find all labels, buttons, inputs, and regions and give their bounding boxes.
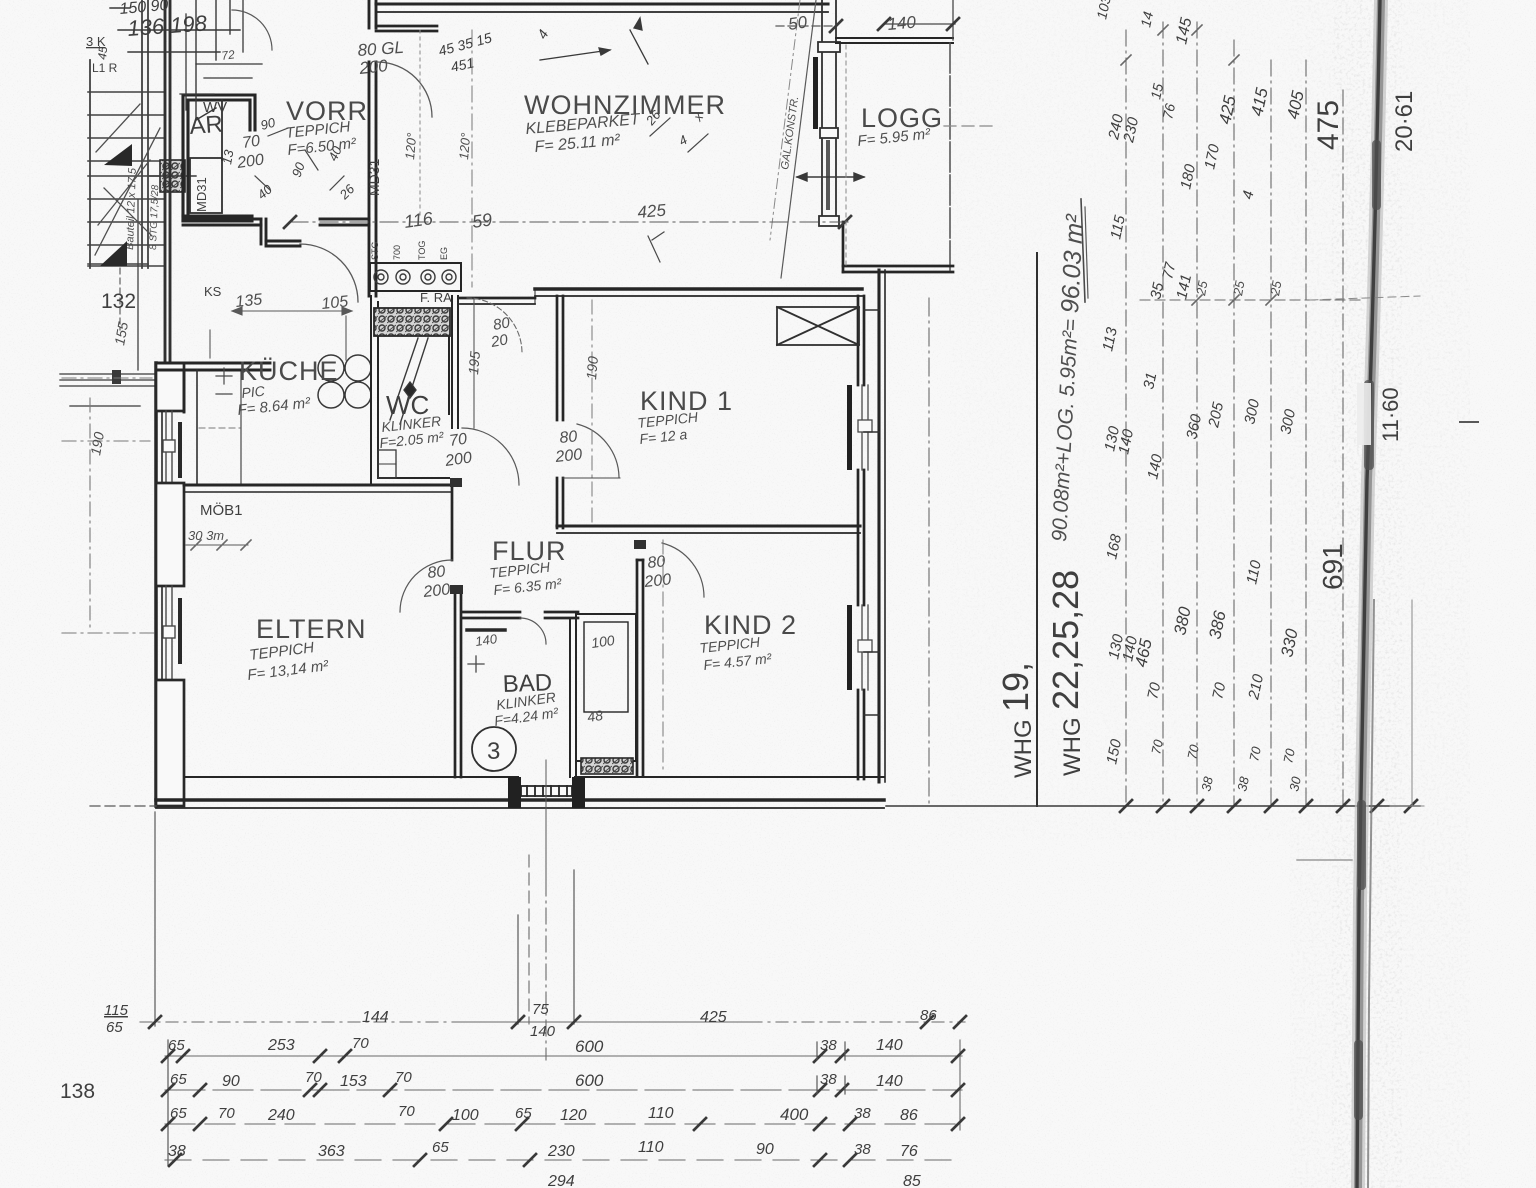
svg-text:138: 138: [60, 1080, 95, 1103]
top-left tick cluster: [110, 0, 240, 120]
svg-text:70: 70: [352, 1035, 369, 1052]
WC room walls: [371, 296, 458, 485]
wall below wohnzimmer (north wall of kind1): [460, 289, 862, 304]
svg-text:38: 38: [820, 1037, 837, 1054]
entrance door leaf at bottom: [521, 786, 572, 796]
svg-text:140: 140: [876, 1073, 903, 1090]
right side vertical dim line: [928, 298, 930, 806]
svg-text:253: 253: [267, 1037, 295, 1054]
svg-text:76: 76: [900, 1143, 918, 1160]
scan fold band: [1358, 0, 1381, 1188]
svg-text:F. RA: F. RA: [420, 290, 452, 305]
svg-text:400: 400: [780, 1105, 809, 1124]
svg-text:STG: STG: [370, 241, 380, 260]
svg-text:38: 38: [854, 1141, 871, 1158]
svg-text:200: 200: [422, 581, 451, 601]
top chain numbers: [1093, 0, 1195, 121]
WOHN/LOGG divider wall with window: [818, 0, 840, 226]
WOHNZIMMER top wall: [376, 4, 828, 12]
kueche counter edge: [240, 372, 242, 484]
svg-text:200: 200: [643, 571, 672, 591]
KUECHE top wall: [156, 363, 270, 412]
AR inner closet divider: [190, 100, 222, 213]
bad door swing: [520, 618, 546, 644]
east window frame lines kind2: [858, 605, 872, 690]
svg-text:38: 38: [820, 1071, 837, 1088]
svg-text:140: 140: [530, 1023, 556, 1040]
stove tiny rotated labels: [370, 241, 449, 260]
svg-text:86: 86: [900, 1107, 918, 1124]
staircase treads: [88, 92, 165, 266]
svg-text:132: 132: [101, 290, 136, 313]
band light gap: [1357, 383, 1371, 445]
kind1 door swing (into kind1): [577, 424, 619, 477]
svg-text:115: 115: [104, 1002, 129, 1019]
dim line right of wc: [473, 298, 475, 428]
entrance top wall going right: [376, 26, 437, 31]
svg-text:65: 65: [432, 1139, 449, 1156]
WHG separator vertical line: [1036, 253, 1038, 806]
west wall pier block middle: [156, 483, 184, 586]
vertical chain line C: [1196, 22, 1198, 806]
svg-text:120°: 120°: [402, 132, 419, 160]
svg-text:70: 70: [448, 431, 468, 450]
staircase diagonal hatching: [95, 104, 160, 255]
west wall pier block top (kueche): [156, 363, 184, 411]
wc door swing into flur: [462, 428, 519, 485]
small 70/11 pairs: [1148, 738, 1304, 793]
svg-text:WHG: WHG: [1010, 719, 1037, 778]
landing rail post: [112, 370, 121, 384]
top-left door arc: [232, 10, 272, 50]
svg-text:MD31: MD31: [194, 177, 209, 212]
svg-text:30 3m: 30 3m: [188, 528, 224, 543]
vorr-kueche door swing: [300, 244, 358, 302]
svg-text:110: 110: [638, 1139, 664, 1156]
eltern door swing: [400, 560, 452, 612]
wohnzimmer left guide dashed: [419, 30, 421, 218]
BAD top wall: [463, 612, 578, 618]
VORR right wall / entrance wall: [369, 0, 376, 296]
stair wall (right of stairs): [165, 0, 170, 363]
chain mid ticks row (y300): [1140, 299, 1360, 301]
svg-text:70: 70: [305, 1069, 322, 1086]
svg-text:65: 65: [168, 1037, 185, 1054]
logg arrow horizontal: [797, 173, 864, 181]
vorr to flur door arc: [467, 298, 522, 353]
faint dash right of logg: [944, 125, 992, 127]
east window glazing bar kind2: [847, 605, 852, 690]
east window frame lines kind1: [858, 385, 872, 470]
top right corner dim 140: [884, 0, 955, 40]
svg-text:700: 700: [392, 245, 402, 260]
kueche crosshair: [216, 368, 232, 394]
kueche inner left line: [196, 370, 198, 485]
dim row 2 (y=1090): [165, 1089, 962, 1091]
svg-text:200: 200: [554, 446, 583, 466]
staircase rails: [90, 0, 148, 370]
kueche double circles (sink): [318, 355, 371, 408]
svg-text:65: 65: [170, 1105, 187, 1122]
svg-text:140: 140: [474, 631, 498, 649]
horizontal dim 425 in wohnzimmer: [290, 221, 850, 223]
dimension baseline bottom right: [886, 805, 1420, 807]
svg-text:20·61: 20·61: [1391, 91, 1418, 152]
svg-text:72: 72: [220, 47, 235, 63]
wohnzimmer corner scribbles: [642, 107, 706, 149]
svg-text:KÜCHE: KÜCHE: [239, 356, 339, 386]
east inner wall (kind rooms): [858, 296, 864, 779]
rotated chain numbers column A: [1099, 112, 1156, 766]
svg-text:240: 240: [267, 1107, 295, 1124]
stair direction arrow 1: [104, 144, 132, 166]
LOGG bottom wall: [843, 222, 953, 272]
KIND1 / KIND2 dividing wall: [557, 526, 860, 533]
gallery diagonal line: [781, 0, 816, 278]
svg-text:31: 31: [1140, 371, 1160, 391]
formula underline: [1081, 199, 1085, 302]
AR room outer walls: [183, 95, 255, 221]
kind2 door posts: [634, 540, 646, 549]
svg-text:65: 65: [170, 1071, 187, 1088]
svg-text:80: 80: [559, 428, 579, 447]
svg-text:19,: 19,: [995, 662, 1036, 712]
faint lines right of band: [1310, 296, 1424, 806]
svg-text:3: 3: [487, 738, 500, 765]
short line below baseline left of band: [1297, 859, 1352, 861]
svg-text:PIC: PIC: [241, 383, 267, 401]
svg-text:140: 140: [887, 13, 917, 34]
svg-text:70: 70: [241, 133, 261, 152]
svg-text:691: 691: [1317, 543, 1348, 590]
stair direction arrow 2: [100, 241, 127, 266]
svg-text:8 STG 17,5/28: 8 STG 17,5/28: [148, 184, 161, 250]
svg-text:70: 70: [218, 1105, 235, 1122]
svg-text:65: 65: [515, 1105, 532, 1122]
svg-text:90: 90: [222, 1073, 240, 1090]
eltern door post: [450, 478, 462, 487]
svg-text:230: 230: [547, 1143, 575, 1160]
kueche dim arrow vertical: [210, 316, 346, 360]
svg-text:153: 153: [340, 1073, 367, 1090]
svg-text:140: 140: [876, 1037, 903, 1054]
KIND1 left wall: [557, 296, 563, 528]
svg-text:75: 75: [532, 1001, 549, 1018]
west window glazing bar 1: [178, 422, 182, 478]
chain ticks top: [1121, 25, 1239, 65]
door jamb blocks at entrance: [508, 777, 521, 808]
WC hatched counter: [374, 308, 450, 336]
svg-text:38: 38: [168, 1143, 186, 1160]
vorr scatter marks: [219, 114, 358, 202]
top dim ticks near logg: [830, 20, 842, 32]
svg-text:144: 144: [362, 1009, 389, 1026]
dim row 3 (y=1124): [165, 1123, 962, 1125]
guide verticals below entrance: [518, 760, 574, 1024]
vertical chain line A: [1125, 30, 1127, 806]
shaft connectors: [864, 310, 879, 715]
bad right wall: [570, 612, 576, 777]
svg-text:600: 600: [575, 1071, 604, 1090]
svg-text:EG: EG: [439, 247, 449, 260]
svg-text:110: 110: [648, 1105, 674, 1122]
shower room (between bad and kind2): [576, 614, 636, 761]
stove row (4 burners): [370, 263, 461, 291]
svg-text:116: 116: [403, 208, 435, 232]
svg-text:120: 120: [560, 1107, 587, 1124]
vertical chain line D: [1233, 40, 1235, 806]
chain ticks bottom: [1120, 800, 1417, 812]
kind2 vertical dashdot: [662, 540, 664, 770]
band dark blobs: [1354, 140, 1381, 1120]
vertical dashdot line wohnzimmer: [471, 30, 473, 287]
kind2 door swing: [662, 543, 704, 597]
svg-text:TOG: TOG: [417, 241, 427, 260]
vertical chain line E: [1270, 60, 1272, 806]
svg-text:86: 86: [920, 1007, 937, 1024]
dim row 0 (y=1022): [140, 1021, 965, 1023]
west window glazing bar 2: [178, 598, 182, 664]
svg-text:100: 100: [452, 1107, 479, 1124]
extra top-left marks: [180, 0, 262, 110]
svg-text:85: 85: [903, 1173, 921, 1188]
svg-text:65: 65: [106, 1019, 123, 1036]
svg-text:600: 600: [575, 1037, 604, 1056]
LOGG right wall thin: [949, 43, 951, 270]
left outer wall (west facade): [156, 363, 162, 806]
vertical chain line B: [1162, 22, 1164, 806]
bad fixtures cross: [468, 656, 484, 672]
landing rail lines left of wall: [60, 374, 155, 406]
svg-text:190: 190: [583, 355, 601, 380]
dim row 4 (y=1160): [165, 1159, 962, 1161]
west wall pier block bottom: [156, 680, 184, 806]
stair-AR door block: [160, 160, 185, 192]
small dash right middle: [1460, 421, 1478, 423]
small arrows top: [540, 18, 648, 64]
top-left scribble numbers: [95, 0, 208, 60]
vertical chain line F: [1305, 60, 1307, 806]
VORR bottom wall right segment: [320, 219, 369, 225]
logg window glazing bar: [813, 57, 818, 129]
svg-text:475: 475: [1312, 100, 1345, 150]
bottom edge partial numbers: [547, 1173, 921, 1188]
vertical chain line G: [1342, 90, 1344, 806]
WC diagonal fixture: [390, 338, 428, 424]
svg-text:KS: KS: [204, 284, 222, 299]
svg-text:48: 48: [586, 707, 604, 725]
KIND2 left wall: [637, 560, 643, 775]
circle 3 (position number): [472, 727, 516, 771]
svg-text:363: 363: [318, 1143, 345, 1160]
svg-text:120°: 120°: [456, 132, 473, 160]
svg-text:70: 70: [398, 1103, 415, 1120]
dashdot axis lines left: [62, 378, 154, 633]
svg-text:20: 20: [489, 331, 510, 351]
svg-text:200: 200: [357, 56, 389, 78]
rotated chain numbers column D/E: [1239, 86, 1308, 702]
KUECHE / ELTERN wall: [184, 485, 452, 492]
FLUR / ELTERN wall vertical: [452, 485, 461, 777]
east window glazing bar kind1: [847, 385, 852, 470]
west window 2 (eltern): [163, 586, 175, 680]
VORR bottom wall left segment: [183, 219, 300, 246]
svg-text:22,25,28: 22,25,28: [1045, 570, 1086, 710]
shower hatched sill: [581, 758, 633, 774]
heavier mottling near fold band: [1290, 0, 1470, 1188]
west window 1 (kueche): [163, 411, 175, 483]
svg-text:59: 59: [471, 209, 494, 232]
svg-text:L1 R: L1 R: [92, 61, 118, 75]
svg-text:11·60: 11·60: [1378, 387, 1403, 442]
entrance door swing arc: [377, 62, 432, 117]
svg-text:90: 90: [756, 1141, 774, 1158]
svg-text:50: 50: [787, 12, 809, 34]
svg-text:3 K: 3 K: [86, 34, 106, 49]
guide vertical left wall extension: [154, 812, 156, 1026]
svg-text:70: 70: [395, 1069, 412, 1086]
top scribbles mid: [437, 27, 552, 75]
kind1 vertical dashdot: [591, 300, 593, 525]
east outer wall: [879, 270, 885, 782]
svg-text:WHG: WHG: [1059, 717, 1086, 776]
svg-text:100: 100: [590, 632, 616, 651]
chimney shaft with X top right of kind1: [777, 307, 859, 345]
svg-text:195: 195: [465, 350, 483, 375]
bottom wall (south facade): [156, 777, 884, 808]
svg-text:MD31: MD31: [366, 158, 382, 196]
bad shelf line: [467, 628, 505, 632]
WC basin bottom left: [378, 450, 396, 478]
svg-text:MÖB1: MÖB1: [200, 501, 243, 519]
rotated chain numbers column B/C: [1140, 94, 1240, 701]
dim row 1 (y=1056): [165, 1055, 962, 1057]
svg-text:425: 425: [700, 1009, 727, 1026]
baseline left part from plan: [90, 805, 156, 807]
logg vertical dashdot: [845, 45, 847, 265]
LOGG top wall: [836, 38, 953, 43]
svg-text:80: 80: [427, 563, 447, 582]
svg-text:38: 38: [854, 1105, 871, 1122]
svg-text:425: 425: [637, 201, 667, 222]
svg-text:294: 294: [547, 1173, 575, 1188]
